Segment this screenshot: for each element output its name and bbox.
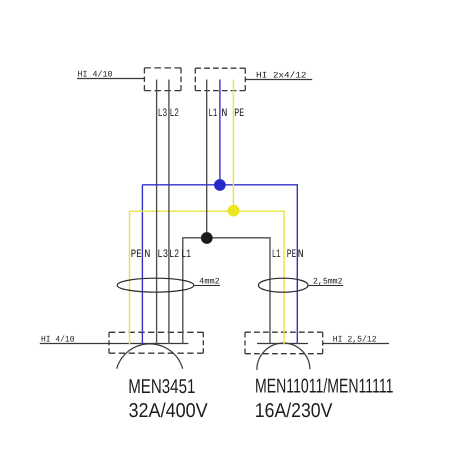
connector X2 dashed outline (top right, HI 2x4/12) — [195, 68, 245, 90]
wire PE branch (yellow, X3 to X4) — [130, 211, 285, 344]
svg-text:32A/400V: 32A/400V — [129, 400, 209, 422]
svg-text:16A/230V: 16A/230V — [255, 400, 333, 422]
svg-text:HI 2,5/12: HI 2,5/12 — [333, 334, 377, 344]
wire L3 (X1 to X3) — [156, 80, 158, 345]
svg-text:L2: L2 — [170, 108, 180, 120]
svg-text:L2: L2 — [169, 249, 179, 261]
connector X4 lead wire — [323, 343, 389, 345]
svg-text:PE: PE — [287, 249, 297, 261]
label 2,5mm2 underline — [308, 285, 343, 287]
svg-text:L1: L1 — [272, 249, 281, 261]
cable symbol 2,5mm2 (ellipse) — [258, 278, 308, 292]
connector X4 terminal bar — [257, 343, 308, 345]
svg-text:L1: L1 — [208, 108, 217, 120]
svg-text:PE: PE — [234, 108, 244, 120]
svg-text:HI 4/10: HI 4/10 — [78, 69, 113, 79]
svg-text:N: N — [298, 249, 304, 261]
connector X3 dashed outline (bottom left, HI 4/10) — [109, 332, 203, 353]
wire PE from X2 down to junction (yellow) — [232, 80, 234, 211]
svg-text:PE: PE — [131, 249, 142, 261]
connector X1 lead wire — [77, 78, 144, 80]
wire L1 from X2 down to junction — [206, 80, 208, 238]
wire L2 (X1 to X3) — [168, 80, 170, 345]
svg-text:MEN11011/MEN11111: MEN11011/MEN11111 — [255, 376, 394, 398]
junction dot N (blue) — [214, 179, 226, 191]
svg-text:L3: L3 — [157, 249, 168, 261]
wire L1 branch (X3 to X4) — [183, 238, 270, 344]
wire N branch horizontal and right vertical (blue, to X4) — [142, 185, 297, 344]
wire N branch left vertical (blue, to X3) — [141, 185, 143, 344]
junction dot PE (yellow) — [228, 205, 240, 217]
cable symbol 4mm2 (ellipse) — [117, 278, 194, 292]
junction dot L1 (black) — [201, 232, 213, 244]
socket arc (connector X4) — [257, 343, 310, 370]
wire N from X2 down to junction (blue) — [219, 80, 221, 186]
svg-text:HI 2x4/12: HI 2x4/12 — [256, 70, 307, 80]
svg-text:N: N — [221, 108, 227, 120]
svg-text:N: N — [144, 249, 150, 261]
svg-text:HI 4/10: HI 4/10 — [41, 335, 75, 345]
connector X1 dashed outline (top left, HI 4/10) — [144, 68, 181, 91]
connector X2 lead wire — [245, 79, 312, 81]
svg-text:MEN3451: MEN3451 — [128, 376, 195, 398]
label 4mm2 underline — [194, 285, 220, 287]
connector X4 dashed outline (bottom right, HI 2,5/12) — [245, 332, 323, 354]
svg-text:L3: L3 — [158, 108, 168, 120]
socket arc (connector X3) — [117, 344, 183, 369]
svg-text:L1: L1 — [181, 249, 191, 261]
connector X3 lead wire and terminal bar — [40, 343, 189, 345]
